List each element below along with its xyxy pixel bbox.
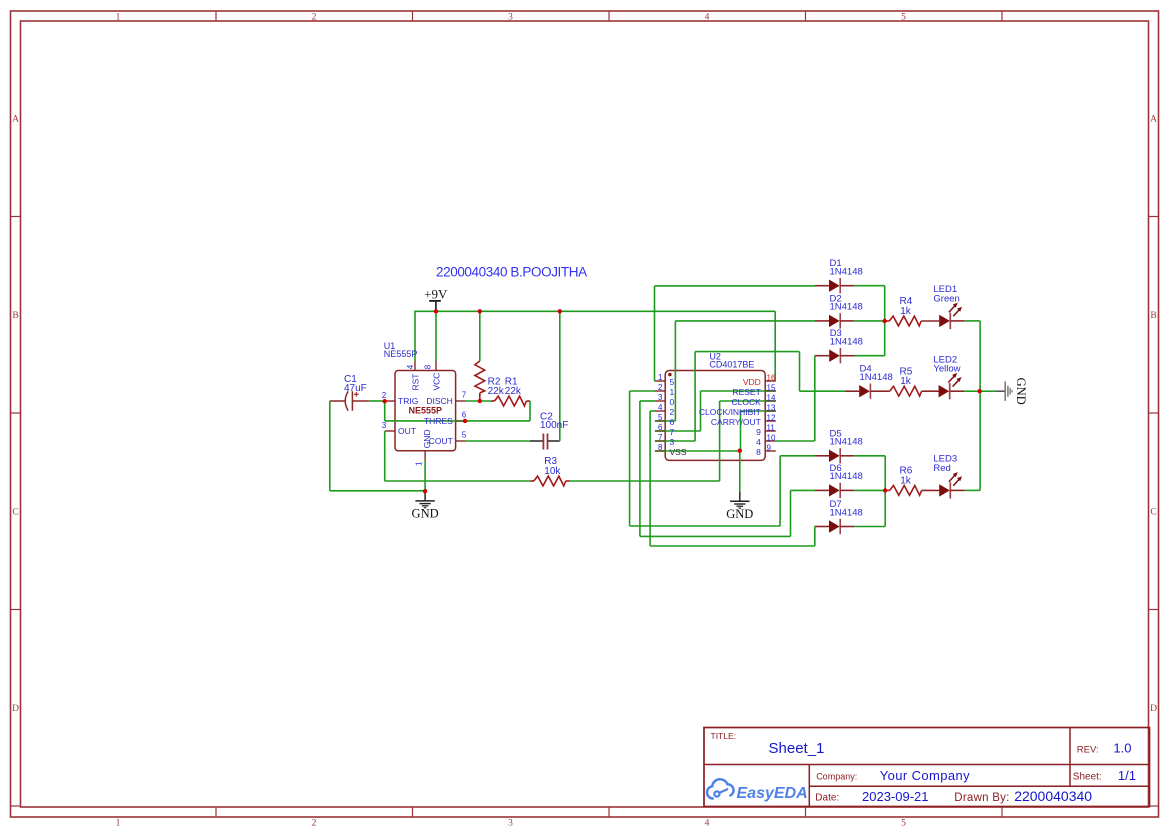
svg-text:A: A	[1150, 115, 1157, 125]
svg-text:CD4017BE: CD4017BE	[709, 360, 754, 370]
wire +9V rail	[415, 310, 775, 312]
wire LED2 junction to GND	[980, 390, 996, 392]
svg-text:Sheet_1: Sheet_1	[769, 740, 825, 757]
wire VSS junction down to GND	[739, 451, 741, 492]
ground symbol GND under U2	[739, 492, 741, 501]
wire D2 cathode to bus	[854, 320, 884, 322]
frame row ticks	[11, 216, 21, 218]
svg-text:15: 15	[767, 383, 776, 392]
svg-text:1N4148: 1N4148	[830, 471, 863, 482]
wire D7 cathode to bus	[854, 526, 885, 528]
svg-text:CLOCK/INHIBIT: CLOCK/INHIBIT	[699, 407, 761, 417]
wire D6 feed riser	[790, 490, 792, 536]
svg-text:8: 8	[756, 447, 761, 457]
svg-text:1k: 1k	[900, 306, 912, 317]
wire U2 pin10 right	[776, 440, 815, 442]
U1 pin 8 stub	[435, 361, 437, 371]
svg-text:GND: GND	[726, 507, 753, 521]
U2 right pin stubs 16-9	[765, 380, 776, 382]
wire pin6 riser up	[700, 391, 702, 431]
wire U2 pin6 right	[655, 430, 701, 432]
svg-text:1/1: 1/1	[1118, 768, 1136, 783]
svg-text:1: 1	[116, 819, 121, 828]
svg-text:1: 1	[670, 387, 675, 397]
svg-text:NE555P: NE555P	[384, 349, 418, 359]
svg-text:100nF: 100nF	[540, 420, 568, 431]
junction VSS / pin13 / GND	[738, 449, 742, 453]
junction +9V rail / VCC	[434, 309, 438, 313]
wire U1 pin1 to GND junction	[424, 461, 426, 492]
resistor R3 10k	[530, 480, 534, 482]
svg-text:Date:: Date:	[815, 792, 839, 803]
U1 pin 4 stub	[414, 361, 416, 371]
svg-text:9: 9	[767, 443, 772, 452]
wire pin4 vertical down	[649, 411, 651, 546]
wire D5 feed riser	[779, 456, 781, 526]
wire rail to U2 pin16 VDD	[774, 311, 776, 381]
svg-text:CLOCK: CLOCK	[732, 397, 762, 407]
wire pin3 bottom horizontal	[640, 535, 791, 537]
wire D6 cathode to bus	[854, 489, 885, 491]
svg-text:GND: GND	[1014, 378, 1028, 405]
svg-text:1: 1	[658, 373, 663, 382]
wire pin7 riser up	[694, 352, 696, 441]
diode D5 1N4148	[815, 455, 829, 457]
wire D5 cathode to bus	[854, 455, 885, 457]
led LED3	[939, 484, 950, 496]
wire riser to D6 anode	[791, 489, 815, 491]
resistor R1 22k (horizontal)	[491, 400, 495, 402]
svg-text:2: 2	[382, 391, 387, 400]
svg-text:REV:: REV:	[1077, 744, 1099, 755]
wire OUT to R3	[385, 480, 531, 482]
svg-text:Company:: Company:	[816, 772, 857, 782]
svg-text:8: 8	[423, 364, 432, 369]
wire R1 right end down to THRES line	[529, 401, 531, 421]
wire pin5 riser up	[674, 321, 676, 421]
resistor R2 22k (vertical)	[475, 361, 485, 393]
svg-text:7: 7	[462, 391, 467, 400]
svg-text:GND: GND	[412, 507, 439, 521]
svg-text:EasyEDA: EasyEDA	[737, 785, 808, 802]
svg-text:7: 7	[670, 427, 675, 437]
wire rail to R2	[479, 311, 481, 361]
diode D1 1N4148	[815, 285, 829, 287]
wire U2 pin1 stub link	[654, 380, 657, 382]
wire U2 pin3 left	[640, 400, 655, 402]
junction GND node U1	[423, 489, 427, 493]
svg-text:5: 5	[670, 377, 675, 387]
svg-text:5: 5	[462, 431, 467, 440]
U2 left pin stubs 1-8	[655, 380, 665, 382]
diode D7 1N4148	[815, 526, 829, 528]
svg-text:B: B	[1150, 311, 1156, 321]
wire VSS pin8 to junction	[655, 450, 740, 452]
svg-text:1k: 1k	[900, 475, 912, 486]
wire OUT pin3 down	[384, 431, 386, 481]
wire U2 pin13 left to riser	[741, 410, 776, 412]
wire pin2 vertical down	[629, 391, 631, 526]
wire rail to U1 pin4 RST	[414, 311, 416, 362]
svg-text:47uF: 47uF	[344, 383, 367, 394]
svg-text:VDD: VDD	[743, 377, 761, 387]
svg-text:4: 4	[658, 403, 663, 412]
wire D7 anode from riser	[814, 526, 816, 528]
svg-text:DISCH: DISCH	[426, 396, 452, 406]
svg-text:22k: 22k	[488, 386, 505, 397]
resistor R4 1k	[885, 320, 890, 322]
svg-text:5: 5	[901, 819, 906, 828]
wire U2 pin4 left	[650, 410, 655, 412]
svg-text:2: 2	[312, 13, 317, 23]
svg-text:C: C	[1150, 508, 1156, 518]
svg-text:3: 3	[670, 437, 675, 447]
svg-text:1N4148: 1N4148	[860, 372, 893, 383]
wire R3 to CLOCK riser	[570, 480, 720, 482]
svg-text:GND: GND	[422, 429, 432, 448]
svg-text:10: 10	[767, 433, 776, 442]
svg-text:8: 8	[658, 443, 663, 452]
svg-text:2: 2	[670, 407, 675, 417]
svg-text:12: 12	[767, 413, 776, 422]
title block company/date divider	[809, 785, 1149, 787]
svg-text:10k: 10k	[544, 466, 561, 477]
wire D1-D3 cathode bus vertical	[884, 286, 886, 356]
led LED1	[939, 315, 950, 327]
U1 pin 3 stub	[385, 430, 395, 432]
svg-text:5: 5	[901, 13, 906, 23]
capacitor C1 47uF (polarized)	[330, 400, 346, 402]
svg-text:B: B	[12, 311, 18, 321]
wire CLOCK riser vertical	[719, 401, 721, 481]
svg-text:1N4148: 1N4148	[830, 507, 863, 518]
junction DISCH / R2 / R1	[478, 399, 482, 403]
diode D3 1N4148	[815, 355, 829, 357]
svg-text:NE555P: NE555P	[409, 406, 443, 416]
svg-text:COUT: COUT	[429, 436, 453, 446]
svg-text:VCC: VCC	[431, 373, 441, 391]
svg-text:OUT: OUT	[398, 426, 416, 436]
junction D1-D3 bus / R4	[883, 319, 887, 323]
wire U2 pin7 right	[655, 440, 695, 442]
svg-text:Your Company: Your Company	[880, 768, 970, 783]
svg-text:2200040340 B.POOJITHA: 2200040340 B.POOJITHA	[436, 264, 587, 279]
svg-text:1: 1	[414, 461, 423, 466]
svg-text:4: 4	[705, 13, 710, 23]
wire D3 cathode to bus	[855, 355, 885, 357]
svg-text:22k: 22k	[505, 386, 522, 397]
U1 pin 1 stub	[424, 451, 426, 461]
svg-text:4: 4	[406, 364, 415, 369]
wire drop to D4 anode	[800, 390, 845, 392]
U1 pin 6 stub overlay	[456, 420, 466, 422]
svg-text:6: 6	[670, 417, 675, 427]
junction rail / C2	[558, 309, 562, 313]
svg-text:Drawn By:: Drawn By:	[954, 792, 1009, 804]
svg-text:TITLE:: TITLE:	[711, 731, 737, 741]
svg-text:14: 14	[767, 393, 776, 402]
ground symbol GND right (rotated)	[995, 390, 1005, 392]
wire pin5 to D2 anode	[675, 320, 815, 322]
wire LED3 cathode right	[965, 489, 980, 491]
ic U2 CD4017BE body	[665, 371, 765, 461]
svg-text:CARRY/OUT: CARRY/OUT	[711, 417, 761, 427]
svg-text:6: 6	[658, 423, 663, 432]
title block logo cell divider	[808, 765, 810, 807]
svg-text:RESET: RESET	[732, 387, 760, 397]
svg-text:Green: Green	[933, 293, 959, 304]
wire pin6 to RESET pin15	[701, 390, 776, 392]
wire C1 right to TRIG pin2	[369, 400, 384, 402]
wire CLOCK riser to U2 pin14	[720, 400, 776, 402]
svg-text:2023-09-21: 2023-09-21	[862, 789, 929, 804]
resistor R5 1k	[885, 390, 890, 392]
svg-text:9: 9	[756, 427, 761, 437]
svg-text:3: 3	[658, 393, 663, 402]
wire D7 feed riser	[814, 527, 816, 547]
wire riser to D5 anode	[780, 455, 815, 457]
U1 pin 2 stub	[385, 400, 395, 402]
capacitor C2 100nF	[530, 440, 543, 442]
svg-text:VSS: VSS	[670, 447, 687, 457]
wire LED cathode common vertical	[979, 321, 981, 491]
wire pin3 vertical down	[639, 401, 641, 536]
wire D5-D7 cathode bus vertical	[884, 456, 886, 527]
svg-text:1: 1	[116, 13, 121, 23]
U2 orientation dot	[668, 373, 671, 376]
frame column ticks	[215, 11, 217, 21]
wire DISCH pin7 to R1	[466, 400, 491, 402]
svg-text:C: C	[12, 508, 18, 518]
svg-text:4: 4	[705, 819, 710, 828]
led LED2	[939, 385, 950, 397]
svg-text:5: 5	[658, 413, 663, 422]
junction LED cathodes / GND	[978, 389, 982, 393]
U1 pin 6 stub	[456, 420, 466, 422]
svg-text:THRES: THRES	[424, 416, 453, 426]
svg-text:D: D	[1150, 704, 1157, 714]
svg-text:1k: 1k	[900, 376, 912, 387]
svg-text:4: 4	[756, 437, 761, 447]
resistor R6 1k	[885, 489, 890, 491]
svg-text:1N4148: 1N4148	[830, 267, 863, 278]
svg-text:A: A	[12, 115, 19, 125]
title block title row divider	[704, 764, 1150, 766]
diode D4 1N4148	[845, 390, 859, 392]
wire pin1 to D1 anode	[655, 285, 815, 287]
wire riser to D3 anode	[814, 355, 816, 357]
diode D2 1N4148	[815, 320, 829, 322]
U1 pin 7 stub	[456, 400, 466, 402]
wire COUT pin5 to C2	[466, 440, 530, 442]
ground symbol GND under U1	[424, 491, 426, 500]
title block rev column divider	[1069, 728, 1071, 787]
wire pin2 bottom horizontal	[630, 525, 781, 527]
svg-text:6: 6	[462, 411, 467, 420]
svg-text:0: 0	[670, 397, 675, 407]
U1 pin 5 stub	[456, 440, 466, 442]
wire U2 pin1 riser up	[654, 286, 656, 381]
junction D5-D7 bus / R6	[883, 488, 887, 492]
wire U2 pin5 right	[655, 420, 675, 422]
op-amp U1 NE555P body	[395, 371, 456, 451]
svg-text:+9V: +9V	[424, 286, 448, 301]
svg-text:2: 2	[312, 819, 317, 828]
wire pin7 top horizontal	[695, 351, 799, 353]
svg-text:TRIG: TRIG	[398, 396, 418, 406]
wire D1 cathode to bus	[854, 285, 884, 287]
svg-text:3: 3	[508, 13, 513, 23]
svg-text:2200040340: 2200040340	[1014, 788, 1092, 804]
wire pin13 riser to VSS junction	[740, 411, 742, 451]
junction THRES node	[463, 419, 467, 423]
wire rail to C2 right plate	[559, 311, 561, 441]
junction rail / R2	[478, 309, 482, 313]
svg-text:16: 16	[767, 373, 776, 382]
svg-text:2: 2	[658, 383, 663, 392]
junction TRIG node	[383, 399, 387, 403]
wire TRIG to THRES horizontal	[385, 420, 530, 422]
svg-text:3: 3	[508, 819, 513, 828]
wire pin4 bottom horizontal	[650, 545, 815, 547]
wire LED2 cathode right	[964, 390, 980, 392]
wire rail to U1 pin8 VCC	[435, 311, 437, 361]
svg-text:D: D	[12, 704, 19, 714]
svg-text:1N4148: 1N4148	[830, 437, 863, 448]
EasyEDA logo cloud icon	[707, 779, 734, 798]
wire pin10 riser to D3	[814, 356, 816, 441]
svg-text:RST: RST	[410, 374, 420, 391]
wire LED1 cathode right	[965, 320, 980, 322]
svg-text:Sheet:: Sheet:	[1073, 771, 1102, 782]
svg-text:7: 7	[658, 433, 663, 442]
title block outline	[704, 728, 1150, 807]
svg-text:Yellow: Yellow	[933, 364, 960, 375]
wire C1 bottom to GND junction	[330, 490, 425, 492]
svg-text:11: 11	[767, 423, 776, 432]
wire C1 left vertical	[329, 401, 331, 491]
wire U2 pin2 left	[630, 390, 655, 392]
wire TRIG junction down	[384, 401, 386, 421]
svg-text:1.0: 1.0	[1113, 741, 1131, 756]
svg-text:Red: Red	[933, 463, 950, 474]
U2 pin 15,14,13 stub overlays	[765, 390, 776, 392]
wire D4 feed drop	[799, 352, 801, 392]
svg-text:3: 3	[382, 421, 387, 430]
svg-text:1N4148: 1N4148	[830, 337, 863, 348]
svg-text:1N4148: 1N4148	[830, 302, 863, 313]
U2 pin 5-8 stub overlays	[655, 420, 665, 422]
diode D6 1N4148	[815, 489, 829, 491]
svg-text:13: 13	[767, 403, 776, 412]
